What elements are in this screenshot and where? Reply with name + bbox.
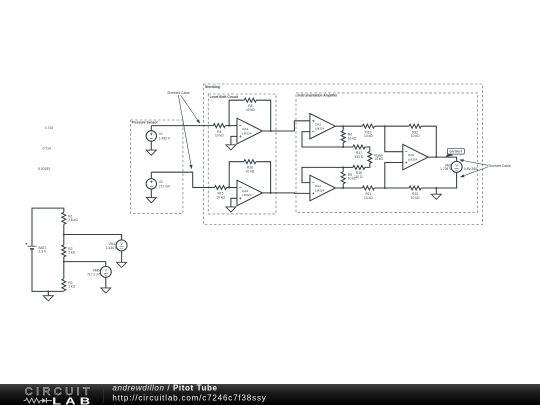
svg-text:V2: V2 <box>159 180 163 184</box>
svg-text:1.708 V: 1.708 V <box>440 167 452 171</box>
svg-text:LM324: LM324 <box>408 157 418 161</box>
ground below V2 <box>146 189 156 203</box>
box Pressure Sensor <box>131 120 183 214</box>
svg-text:10 kΩ: 10 kΩ <box>216 195 225 199</box>
ground at R13 node <box>431 188 441 199</box>
svg-text:LM324: LM324 <box>315 127 325 131</box>
resistor R8 10k <box>244 98 256 112</box>
resistor R6 10k (vertical) <box>341 126 357 147</box>
svg-text:LM324: LM324 <box>242 131 252 135</box>
ground below VM04 <box>101 277 111 293</box>
svg-text:LM324: LM324 <box>315 188 325 192</box>
wire OA2 feedback to node A <box>302 132 343 147</box>
wire OA6 output to OA4 <box>262 192 310 195</box>
resistor R10 10k <box>362 124 374 138</box>
wire R4 to OA1 inverting input <box>225 125 237 127</box>
svg-text:andrewdillon / Pitot Tube: andrewdillon / Pitot Tube <box>112 384 217 393</box>
wire VM2 bottom to ground node <box>436 172 456 188</box>
resistor R12 10k (feedback) <box>409 124 421 138</box>
svg-text:LAB: LAB <box>52 395 94 405</box>
node OA2 output <box>342 125 344 127</box>
wire OA1 feedback loop <box>229 100 271 131</box>
ground at bottom rail <box>43 290 53 300</box>
wire OA4 feedback to node B <box>302 167 343 182</box>
node R13/ground/VM2 junction <box>435 187 437 189</box>
svg-text:1.434 V: 1.434 V <box>106 246 118 250</box>
wire battery bottom <box>32 249 64 292</box>
svg-text:10 kΩ: 10 kΩ <box>364 196 373 200</box>
svg-text:717.1 mV: 717.1 mV <box>87 272 102 276</box>
ground below V1 <box>146 141 156 155</box>
svg-text:10 kΩ: 10 kΩ <box>215 134 224 138</box>
resistor R2 1k (vertical) <box>62 235 76 262</box>
svg-text:2.6 kΩ: 2.6 kΩ <box>68 218 78 222</box>
op-amp OA2 <box>310 114 335 139</box>
ground below VM12 <box>117 251 127 268</box>
op-amp OA4 <box>310 175 335 201</box>
node R15/R16/OA6 junction <box>228 187 230 189</box>
footer separator <box>103 386 105 403</box>
arrow to VM2 lower wire <box>460 167 488 177</box>
svg-text:1 kΩ: 1 kΩ <box>68 251 75 255</box>
svg-text:30 Ω: 30 Ω <box>355 175 363 179</box>
ground at OA1 + input <box>226 136 237 150</box>
arrow to output wire <box>459 159 488 165</box>
wire node to VM04 <box>64 262 106 267</box>
wire OA4 output line <box>335 187 385 189</box>
svg-text:10 kΩ: 10 kΩ <box>348 136 357 140</box>
svg-text:1.482 V: 1.482 V <box>159 137 171 141</box>
node R11/R13 junction <box>384 187 386 189</box>
svg-text:0.743: 0.743 <box>45 126 53 130</box>
voltmeter VM2 <box>440 161 462 172</box>
box Instrumentation Amplifier <box>296 93 478 212</box>
wire to OA5 inverting input <box>385 126 403 152</box>
battery BAT1 <box>25 243 47 254</box>
wire R15 to OA6 inverting input <box>227 187 238 189</box>
wire OA6 feedback loop <box>229 162 270 193</box>
svg-text:0-5V ADC: 0-5V ADC <box>464 167 479 171</box>
svg-text:5.00193: 5.00193 <box>38 167 50 171</box>
svg-text:Pressure Sensor: Pressure Sensor <box>132 121 159 125</box>
wire V2 to R15 <box>151 172 214 187</box>
wire node to VM12 <box>64 235 122 240</box>
node feedback/output junction <box>435 156 437 158</box>
wire OA1 output to OA2 <box>262 121 310 131</box>
resistor R16 10k <box>244 160 256 174</box>
resistor R3 1k (vertical) <box>62 262 76 292</box>
resistor R13 10k <box>385 186 437 200</box>
svg-text:1 kΩ: 1 kΩ <box>68 285 75 289</box>
node OA1 output / feedback junction <box>270 130 272 132</box>
ground at OA6 + input <box>226 198 237 212</box>
svg-text:Instrumentation Amplifier: Instrumentation Amplifier <box>298 94 339 98</box>
svg-text:430 Ω: 430 Ω <box>354 155 363 159</box>
resistor R17 430 ohm <box>343 145 370 159</box>
svg-text:10 kΩ: 10 kΩ <box>348 177 357 181</box>
arrow to top wire <box>181 95 201 124</box>
wire V1 to R4 <box>151 126 213 131</box>
svg-text:Shielded Cable: Shielded Cable <box>167 91 190 95</box>
box Level Shift Circuit <box>208 94 276 214</box>
svg-text:10 kΩ: 10 kΩ <box>374 157 383 161</box>
node R1/R2/VM12 <box>63 234 65 236</box>
resistor R9 10k (vertical) <box>341 167 357 188</box>
svg-text:LM324: LM324 <box>242 193 252 197</box>
svg-text:0.714: 0.714 <box>43 147 51 151</box>
box Shielding <box>204 84 483 225</box>
svg-text:OUTPUT: OUTPUT <box>450 150 463 154</box>
svg-text:Level Shift Circuit: Level Shift Circuit <box>210 95 239 99</box>
resistor R11 10k <box>362 186 374 200</box>
svg-text:717 mV: 717 mV <box>159 185 171 189</box>
voltage source V1 <box>146 131 171 141</box>
op-amp OA5 <box>403 144 428 170</box>
node A <box>342 146 344 148</box>
op-amp OA1 <box>237 118 262 144</box>
wire battery top to R1 <box>32 208 64 246</box>
node R10/R12 junction <box>384 125 386 127</box>
resistor R4 10k <box>213 124 225 138</box>
svg-text:Shielding: Shielding <box>205 85 220 89</box>
wire OA5 output <box>428 157 456 161</box>
resistor R15 10k <box>215 186 227 200</box>
svg-text:V1: V1 <box>159 132 163 136</box>
svg-text:10 kΩ: 10 kΩ <box>411 134 420 138</box>
wire OA2 output line <box>335 126 436 157</box>
op-amp OA6 <box>237 180 262 206</box>
node R4/R8/OA1 junction <box>228 125 230 127</box>
svg-text:10 kΩ: 10 kΩ <box>246 108 255 112</box>
svg-text:10 kΩ: 10 kΩ <box>364 134 373 138</box>
node B <box>342 166 344 168</box>
resistor R1 2.6k (vertical) <box>62 212 79 234</box>
voltage source V2 <box>146 179 171 189</box>
resistor R18 30 ohm <box>343 165 365 178</box>
node OA6 output / feedback junction <box>270 192 272 194</box>
svg-text:Shielded Cable: Shielded Cable <box>488 164 511 168</box>
svg-text:http://circuitlab.com/c7246c7f: http://circuitlab.com/c7246c7f38ssy <box>112 394 266 403</box>
arrow to lower wire corner <box>178 95 192 169</box>
voltmeter VM04 <box>87 266 111 277</box>
node OA4 output <box>342 187 344 189</box>
svg-text:10 kΩ: 10 kΩ <box>411 196 420 200</box>
logo resistor-diode symbol <box>24 398 52 403</box>
svg-text:3.3 V: 3.3 V <box>39 250 47 254</box>
node R2/R3/VM04 <box>63 261 65 263</box>
resistor Rgain 10k (vertical) <box>365 151 384 167</box>
voltmeter VM12 <box>106 240 127 251</box>
svg-text:10 kΩ: 10 kΩ <box>246 170 255 174</box>
wire to OA5 non-inverting input <box>385 163 403 189</box>
flag OUTPUT <box>446 148 465 157</box>
